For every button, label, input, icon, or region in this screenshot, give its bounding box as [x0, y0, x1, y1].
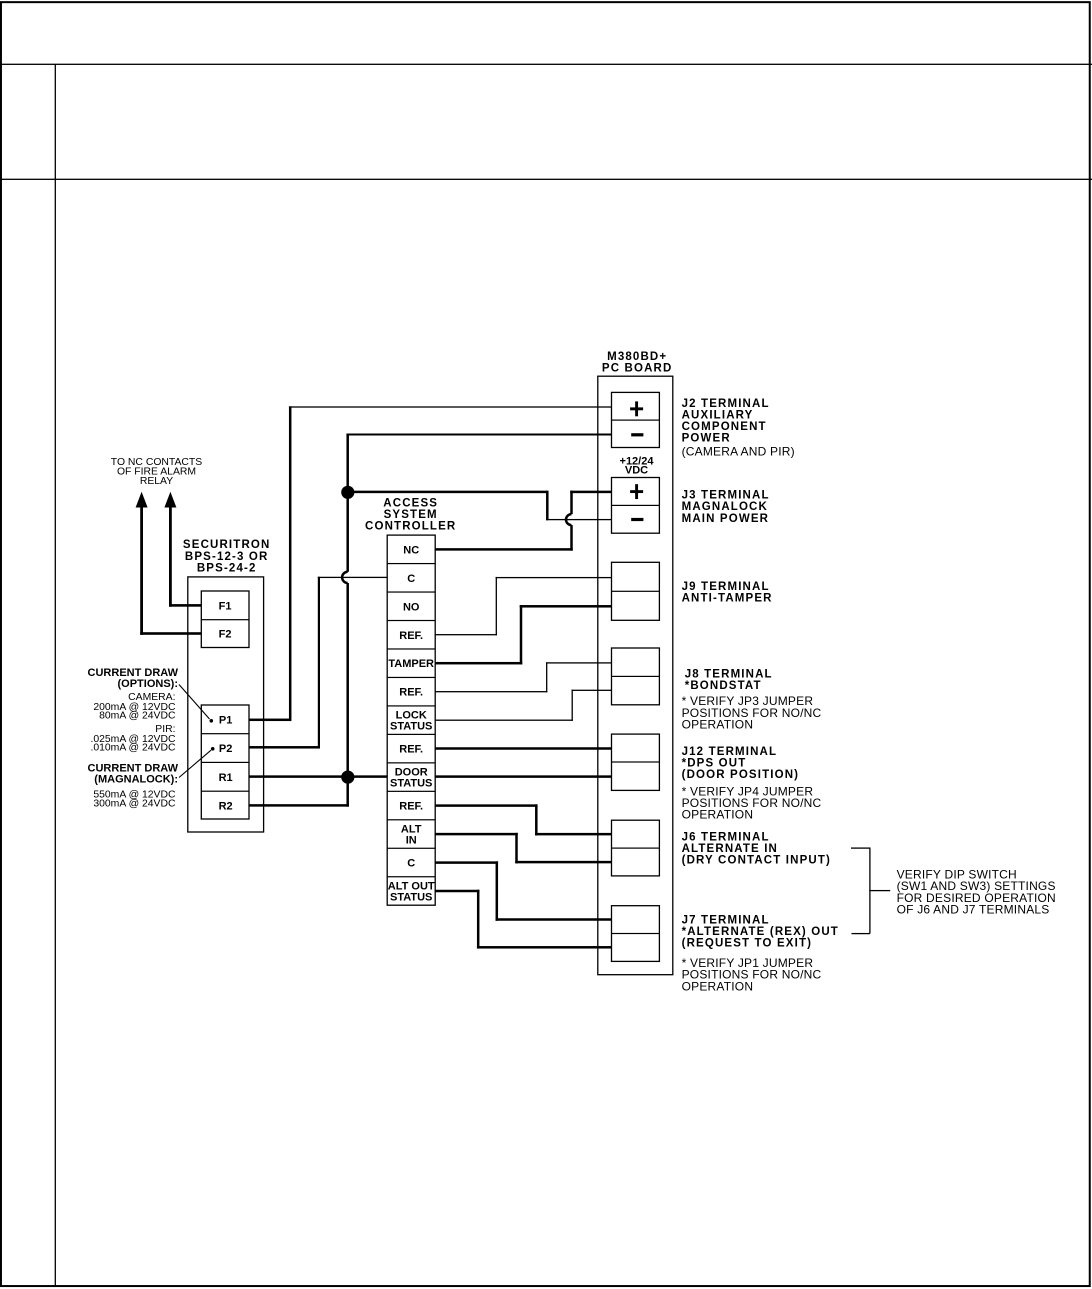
svg-text:R2: R2 — [219, 801, 233, 813]
svg-text:CONTROLLER: CONTROLLER — [365, 521, 456, 533]
svg-text:(DRY CONTACT INPUT): (DRY CONTACT INPUT) — [682, 855, 831, 867]
svg-text:OPERATION: OPERATION — [682, 718, 754, 732]
svg-text:IN: IN — [406, 835, 417, 847]
power supply BPS outline box — [188, 577, 264, 832]
svg-text:J12 TERMINAL: J12 TERMINAL — [682, 746, 778, 758]
arrow to fire alarm relay (right, from F1) — [164, 492, 176, 508]
svg-text:OPERATION: OPERATION — [682, 808, 754, 822]
terminal J6 — [612, 820, 660, 876]
wire J2- horizontal — [346, 434, 611, 436]
svg-text:(CAMERA AND PIR): (CAMERA AND PIR) — [682, 445, 795, 459]
J2 + symbol — [630, 407, 643, 410]
svg-text:OPERATION: OPERATION — [682, 979, 754, 993]
wire F1 to relay arrow — [169, 604, 201, 607]
wire LOCK STATUS to J8 bottom — [435, 720, 573, 721]
terminal J12 — [612, 734, 660, 790]
wire C row horizontal — [318, 577, 387, 578]
leader line from (MAGNALOCK): to P2 — [179, 750, 211, 777]
svg-text:AUXILIARY: AUXILIARY — [682, 409, 754, 421]
svg-text:STATUS: STATUS — [390, 778, 432, 790]
svg-text:M380BD+: M380BD+ — [607, 351, 667, 363]
svg-text:RELAY: RELAY — [140, 476, 173, 487]
arrow to fire alarm relay (left, from F2) — [136, 492, 148, 508]
svg-text:STATUS: STATUS — [390, 721, 432, 733]
left margin column line — [55, 64, 56, 1287]
svg-text:J7 TERMINAL: J7 TERMINAL — [682, 915, 770, 927]
svg-text:SECURITRON: SECURITRON — [183, 539, 271, 551]
svg-text:80mA @ 24VDC: 80mA @ 24VDC — [99, 710, 176, 721]
terminal J2 — [612, 392, 660, 447]
wire R2 horizontal — [249, 804, 349, 807]
svg-text:300mA @ 24VDC: 300mA @ 24VDC — [93, 799, 176, 810]
svg-text:REF.: REF. — [399, 744, 423, 756]
J2 - symbol — [631, 433, 643, 436]
svg-text:MAGNALOCK: MAGNALOCK — [682, 501, 768, 513]
svg-text:*BONDSTAT: *BONDSTAT — [685, 680, 762, 692]
svg-text:NO: NO — [403, 601, 420, 613]
wire NC to J3+ (hop over J3- wire) — [435, 548, 573, 551]
svg-text:MAIN POWER: MAIN POWER — [682, 513, 770, 525]
svg-text:REF.: REF. — [399, 630, 423, 642]
svg-text:TAMPER: TAMPER — [388, 658, 434, 670]
svg-text:PC BOARD: PC BOARD — [602, 363, 673, 375]
svg-text:*DPS OUT: *DPS OUT — [682, 758, 747, 770]
wire P1 to J2+ (up at x=290) — [249, 719, 290, 722]
title block divider line 2 — [0, 179, 1092, 180]
svg-text:NC: NC — [403, 544, 419, 556]
svg-text:R1: R1 — [219, 772, 233, 784]
svg-text:ACCESS: ACCESS — [383, 497, 438, 509]
wire node to J3- (via x=547) — [348, 491, 548, 494]
svg-text:STATUS: STATUS — [390, 891, 432, 903]
svg-text:ALTERNATE IN: ALTERNATE IN — [682, 843, 778, 855]
svg-text:J8 TERMINAL: J8 TERMINAL — [685, 668, 773, 680]
svg-text:J9 TERMINAL: J9 TERMINAL — [682, 581, 770, 593]
wire P2 to controller C (up at x=319) — [249, 746, 319, 749]
svg-text:VDC: VDC — [625, 465, 648, 477]
wire F2 to relay arrow — [140, 632, 201, 635]
terminal J3 — [612, 478, 660, 534]
svg-text:C: C — [407, 573, 415, 585]
terminal block F1/F2 — [201, 591, 249, 648]
wire R1 to DOOR STATUS (through dot2) — [249, 775, 387, 778]
wire REF to J9 top — [435, 634, 497, 635]
wire REF to J8 top — [435, 691, 547, 692]
svg-text:*ALTERNATE (REX) OUT: *ALTERNATE (REX) OUT — [682, 926, 839, 938]
controller terminal strip box — [387, 535, 435, 905]
wire REF to J6 top — [435, 804, 537, 807]
title block divider line 1 — [0, 64, 1092, 65]
svg-text:BPS-24-2: BPS-24-2 — [197, 563, 257, 575]
svg-text:P1: P1 — [219, 714, 232, 726]
svg-text:P2: P2 — [219, 743, 232, 755]
wire bus x=348 hop to dot2 — [346, 583, 349, 777]
svg-text:J3 TERMINAL: J3 TERMINAL — [682, 489, 770, 501]
wire TAMPER to J9 bottom — [435, 662, 522, 665]
terminal J8 — [612, 648, 660, 705]
svg-text:POWER: POWER — [682, 433, 731, 445]
svg-text:F2: F2 — [219, 629, 232, 641]
svg-text:F1: F1 — [219, 600, 232, 612]
svg-text:J2 TERMINAL: J2 TERMINAL — [682, 398, 770, 410]
wire ALT OUT STATUS to J7 bottom — [435, 890, 479, 893]
J3 + symbol — [630, 490, 643, 493]
svg-text:(OPTIONS):: (OPTIONS): — [118, 678, 179, 690]
svg-text:(MAGNALOCK):: (MAGNALOCK): — [94, 773, 178, 785]
svg-text:SYSTEM: SYSTEM — [384, 509, 438, 521]
svg-text:BPS-12-3 OR: BPS-12-3 OR — [185, 551, 269, 563]
junction dot R1/R2/door-status node — [341, 771, 354, 784]
leader line from (OPTIONS): to P1 — [179, 685, 210, 720]
bracket joining J6 and J7 labels — [851, 847, 870, 848]
svg-text:COMPONENT: COMPONENT — [682, 421, 767, 433]
svg-text:REF.: REF. — [399, 801, 423, 813]
hop over C-row wire — [342, 572, 348, 583]
junction dot J2-/J3- node — [341, 486, 354, 499]
wire DOOR STATUS to J12 bottom — [435, 775, 611, 778]
svg-text:REF.: REF. — [399, 687, 423, 699]
terminal J9 — [612, 562, 660, 620]
svg-text:(REQUEST TO EXIT): (REQUEST TO EXIT) — [682, 938, 813, 950]
PC board outline box — [598, 376, 673, 975]
svg-text:(DOOR POSITION): (DOOR POSITION) — [682, 769, 800, 781]
wire ALT IN to J6 bottom — [435, 833, 518, 836]
wire REF to J12 top — [435, 747, 611, 750]
J3 - symbol — [631, 518, 643, 521]
wire C to J7 top — [435, 861, 498, 864]
wire vertical bus x=348 (J2- down) — [346, 434, 349, 488]
wire bus x=348 dot2 to R2 — [346, 777, 349, 807]
svg-text:OF J6 AND J7 TERMINALS: OF J6 AND J7 TERMINALS — [897, 903, 1050, 917]
svg-text:C: C — [407, 858, 415, 870]
wire bus x=348 between dot and hop — [346, 498, 349, 572]
svg-text:ANTI-TAMPER: ANTI-TAMPER — [682, 592, 773, 604]
svg-text:.010mA @ 24VDC: .010mA @ 24VDC — [90, 743, 176, 754]
svg-text:J6 TERMINAL: J6 TERMINAL — [682, 831, 770, 843]
terminal block P1/P2/R1/R2 — [201, 705, 249, 819]
terminal J7 — [612, 906, 660, 962]
